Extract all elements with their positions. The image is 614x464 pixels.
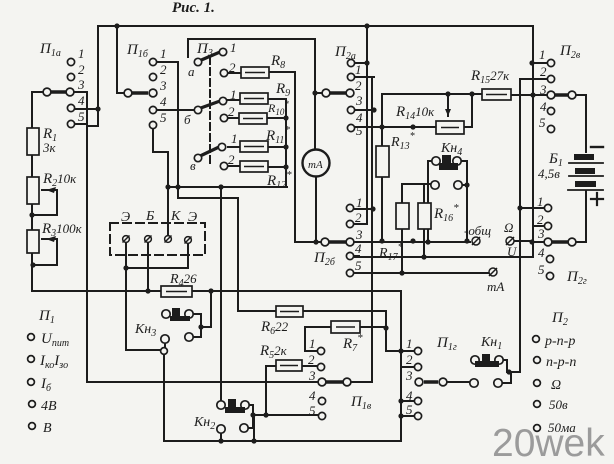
svg-text:П1: П1 <box>38 308 55 326</box>
svg-text:тА: тА <box>487 279 504 294</box>
svg-text:2: 2 <box>406 352 413 367</box>
svg-text:5: 5 <box>356 123 363 138</box>
svg-text:IкоIзо: IкоIзо <box>39 353 68 371</box>
svg-text:П1г: П1г <box>436 335 457 353</box>
svg-text:R52к: R52к <box>259 343 288 361</box>
svg-text:4: 4 <box>538 245 545 260</box>
svg-text:2: 2 <box>355 210 362 225</box>
svg-text:Uпит: Uпит <box>41 331 69 349</box>
svg-text:1: 1 <box>406 336 413 351</box>
svg-text:Кн2: Кн2 <box>193 415 215 432</box>
svg-text:4: 4 <box>540 99 547 114</box>
svg-text:20wek: 20wek <box>492 422 605 464</box>
svg-text:П2б: П2б <box>313 250 336 268</box>
svg-text:3: 3 <box>355 227 363 242</box>
svg-text:5: 5 <box>309 403 316 418</box>
svg-text:R3100к: R3100к <box>41 221 83 239</box>
svg-text:П1б: П1б <box>126 42 149 60</box>
svg-text:4: 4 <box>355 241 362 256</box>
svg-text:2: 2 <box>228 104 235 119</box>
svg-text:5: 5 <box>539 115 546 130</box>
svg-text:Кн1: Кн1 <box>480 335 502 352</box>
svg-text:Б: Б <box>145 209 154 224</box>
svg-text:1: 1 <box>160 46 167 61</box>
svg-text:в: в <box>190 158 196 173</box>
svg-text:1: 1 <box>539 47 546 62</box>
svg-text:4,5в: 4,5в <box>538 166 560 181</box>
svg-text:3: 3 <box>539 82 547 97</box>
svg-text:Э: Э <box>188 210 197 225</box>
svg-text:R9: R9 <box>275 81 290 99</box>
svg-text:Кн4: Кн4 <box>440 141 462 158</box>
svg-text:U: U <box>507 244 518 259</box>
svg-text:П2а: П2а <box>334 44 356 62</box>
svg-text:R426: R426 <box>169 271 197 289</box>
svg-text:1: 1 <box>355 62 362 77</box>
svg-text:3: 3 <box>355 93 363 108</box>
svg-text:4: 4 <box>309 388 316 403</box>
svg-text:5: 5 <box>538 262 545 277</box>
svg-text:R7*: R7* <box>342 332 363 354</box>
svg-text:Кн3: Кн3 <box>134 322 156 339</box>
svg-text:2: 2 <box>78 62 85 77</box>
svg-text:2: 2 <box>355 78 362 93</box>
svg-text:Э: Э <box>121 210 130 225</box>
svg-text:3: 3 <box>308 368 316 383</box>
svg-text:-общ: -общ <box>464 223 491 238</box>
svg-text:3к: 3к <box>42 140 57 155</box>
svg-text:5: 5 <box>78 109 85 124</box>
svg-text:1: 1 <box>230 87 237 102</box>
svg-text:П2г: П2г <box>566 269 587 287</box>
svg-text:2: 2 <box>160 62 167 77</box>
svg-text:3: 3 <box>77 77 85 92</box>
svg-text:5: 5 <box>355 258 362 273</box>
svg-text:П2: П2 <box>551 310 568 328</box>
svg-text:б: б <box>184 112 191 127</box>
svg-text:1: 1 <box>231 131 238 146</box>
svg-text:R13*: R13* <box>390 131 415 152</box>
svg-text:R8: R8 <box>270 53 285 71</box>
svg-text:тА: тА <box>308 159 323 171</box>
svg-text:R16*: R16* <box>433 202 459 224</box>
svg-text:50в: 50в <box>549 397 568 412</box>
svg-text:р-п-р: р-п-р <box>544 334 575 349</box>
svg-text:1: 1 <box>78 46 85 61</box>
svg-text:R1410к: R1410к <box>395 104 435 122</box>
svg-text:1: 1 <box>356 195 363 210</box>
svg-text:Рис. 1.: Рис. 1. <box>172 0 215 16</box>
svg-text:5: 5 <box>406 402 413 417</box>
svg-text:2: 2 <box>540 64 547 79</box>
svg-text:П2в: П2в <box>559 43 581 61</box>
svg-text:R210к: R210к <box>42 171 77 189</box>
svg-text:R622: R622 <box>260 319 289 337</box>
svg-text:а: а <box>188 64 195 79</box>
svg-text:R17*: R17* <box>378 242 403 263</box>
svg-text:3: 3 <box>537 226 545 241</box>
svg-text:4В: 4В <box>41 399 57 414</box>
svg-text:2: 2 <box>228 152 235 167</box>
svg-text:2: 2 <box>308 352 315 367</box>
svg-text:4: 4 <box>78 93 85 108</box>
svg-text:В: В <box>43 421 52 436</box>
svg-text:П1а: П1а <box>39 41 61 59</box>
svg-text:Ω: Ω <box>551 378 561 393</box>
svg-text:1: 1 <box>309 336 316 351</box>
svg-text:4: 4 <box>160 94 167 109</box>
svg-text:2: 2 <box>229 60 236 75</box>
svg-text:п-р-п: п-р-п <box>546 355 576 370</box>
svg-text:К: К <box>170 209 181 224</box>
svg-text:Ω: Ω <box>504 220 513 235</box>
svg-text:1: 1 <box>537 194 544 209</box>
svg-text:П3: П3 <box>196 41 213 59</box>
svg-text:3: 3 <box>159 78 167 93</box>
svg-text:П1в: П1в <box>350 394 372 412</box>
svg-text:R1527к: R1527к <box>470 68 510 86</box>
svg-text:4: 4 <box>406 388 413 403</box>
svg-text:R12*: R12* <box>266 169 292 191</box>
svg-text:Iб: Iб <box>40 376 52 394</box>
svg-text:2: 2 <box>537 212 544 227</box>
svg-text:1: 1 <box>230 40 237 55</box>
svg-text:3: 3 <box>405 368 413 383</box>
svg-text:5: 5 <box>160 110 167 125</box>
